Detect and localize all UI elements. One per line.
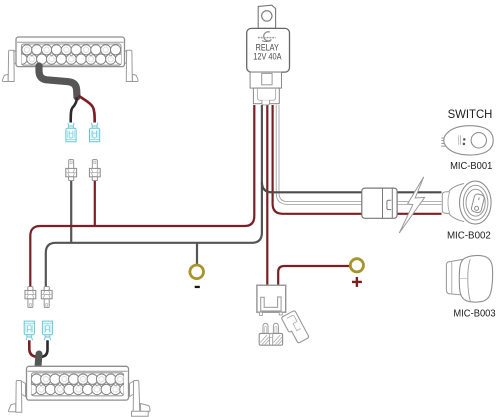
svg-text:MIC-B002: MIC-B002 [447, 230, 491, 241]
svg-text:MIC-B001: MIC-B001 [450, 161, 493, 172]
svg-text:12V 40A: 12V 40A [253, 52, 281, 62]
svg-text:MIC-B003: MIC-B003 [453, 308, 496, 319]
svg-text:SWITCH: SWITCH [448, 108, 493, 121]
